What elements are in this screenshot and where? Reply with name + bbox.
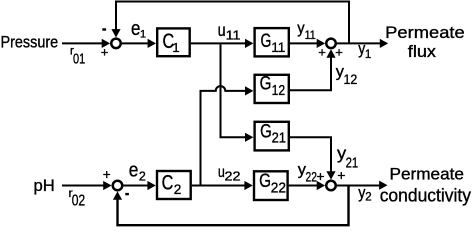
svg-text:11: 11: [305, 28, 316, 42]
svg-text:Permeate: Permeate: [390, 165, 465, 183]
wire: G21 output down to J3 (y21): [290, 137, 331, 172]
wire: u11 branch down to G21: [221, 44, 247, 137]
arrowhead: y22 into J3: [317, 181, 325, 190]
block G21: [255, 122, 289, 151]
svg-text:Permeate: Permeate: [385, 24, 465, 42]
arrowhead: pressure into J1: [102, 39, 110, 48]
svg-text:22: 22: [225, 169, 241, 184]
wire: pH input line: [62, 185, 104, 187]
block C1: [157, 28, 190, 56]
arrowhead: e2 into C2: [147, 181, 155, 190]
svg-text:e: e: [129, 159, 139, 181]
svg-text:G: G: [260, 73, 272, 95]
wire: J4 to C2: [124, 185, 148, 187]
svg-text:1: 1: [172, 40, 179, 55]
svg-text:1: 1: [140, 29, 146, 41]
wire: J1 to C1: [122, 42, 149, 44]
svg-text:y: y: [297, 20, 304, 37]
arrowhead: u11 branch into G21: [245, 133, 253, 142]
svg-text:u: u: [218, 20, 226, 40]
wire: C1 to G11 (u11): [191, 42, 246, 44]
svg-text:22: 22: [306, 170, 317, 185]
svg-text:02: 02: [72, 193, 86, 210]
svg-text:2: 2: [365, 192, 371, 204]
arrowhead: y12 up into J2: [326, 49, 335, 57]
wire: bottom feedback path: [118, 186, 349, 226]
arrowhead: y1 output: [380, 39, 388, 48]
arrowhead: y11 into J2: [317, 39, 325, 48]
svg-text:Pressure: Pressure: [1, 34, 59, 52]
svg-text:21: 21: [272, 131, 286, 147]
svg-text:+: +: [103, 167, 111, 182]
svg-text:C: C: [162, 171, 174, 194]
summing junction J1: [111, 39, 121, 49]
summing junction J4: [113, 181, 123, 191]
wire: pressure input line: [62, 42, 103, 44]
label minus at J1: [102, 28, 106, 30]
svg-text:22: 22: [271, 181, 286, 197]
wire: G12 output up to J2 (y12): [290, 57, 331, 91]
svg-text:+: +: [337, 167, 345, 183]
arrowhead: pH into J4: [103, 181, 111, 190]
block G12: [255, 75, 289, 103]
arrowhead: u11 into G11: [245, 39, 253, 48]
svg-text:+: +: [335, 45, 343, 60]
arrowhead: e1 into C1: [148, 39, 156, 48]
svg-text:2: 2: [139, 170, 146, 184]
svg-text:+: +: [318, 45, 326, 60]
svg-text:1: 1: [365, 49, 371, 61]
svg-text:G: G: [260, 120, 272, 142]
arrowhead: u22 into G22: [244, 181, 252, 190]
svg-text:12: 12: [344, 72, 358, 87]
summing junction J3: [326, 181, 336, 191]
svg-text:G: G: [261, 30, 272, 52]
wire: G11 to J2 (y11): [290, 42, 318, 44]
svg-text:+: +: [101, 45, 109, 60]
wire: J2 output y1: [337, 42, 381, 44]
wire: u22 branch up and hop over u11 branch, to G12: [201, 86, 247, 184]
wire: top feedback path: [116, 2, 349, 44]
svg-text:11: 11: [271, 39, 285, 55]
block G22: [254, 171, 288, 200]
svg-text:11: 11: [226, 28, 241, 43]
block G11: [255, 28, 289, 56]
wire: G22 to J3 (y22): [289, 185, 318, 187]
svg-text:12: 12: [272, 83, 286, 99]
wire: J3 output y2: [337, 185, 381, 187]
svg-text:2: 2: [174, 182, 182, 197]
arrowhead: y2 output: [379, 181, 387, 190]
svg-text:G: G: [259, 170, 271, 192]
arrowhead: feedback down into J1: [111, 29, 120, 37]
label minus at J4: [125, 193, 129, 195]
arrowhead: u22 branch into G12: [245, 86, 253, 95]
svg-text:flux: flux: [408, 42, 437, 61]
svg-text:21: 21: [346, 154, 359, 171]
arrowhead: feedback up into J4: [113, 191, 122, 199]
svg-text:+: +: [316, 168, 324, 184]
svg-text:pH: pH: [34, 177, 55, 195]
svg-text:conductivity: conductivity: [380, 185, 471, 205]
summing junction J2: [326, 39, 336, 49]
block C2: [157, 171, 191, 199]
svg-text:01: 01: [73, 51, 85, 68]
wire: C2 to G22 (u22): [192, 185, 245, 187]
arrowhead: y21 down into J3: [326, 171, 335, 179]
